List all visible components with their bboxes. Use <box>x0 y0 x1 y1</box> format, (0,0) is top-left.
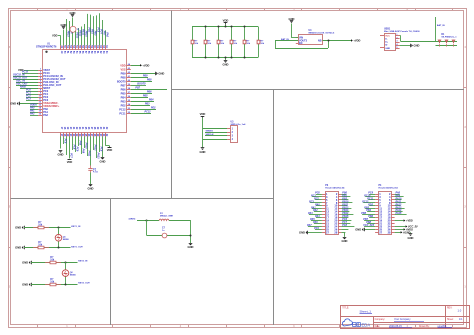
svg-text:BAT_IN: BAT_IN <box>437 24 445 27</box>
wire SWD pin1 VDD <box>203 128 228 130</box>
svg-text:PA11: PA11 <box>87 151 90 157</box>
P3 pin stubs right <box>338 195 341 233</box>
svg-text:GND: GND <box>15 226 21 230</box>
svg-text:+VDD: +VDD <box>142 63 149 67</box>
net labels on U1 top wires <box>66 28 108 39</box>
ground above U4 <box>290 20 294 22</box>
svg-text:PB7: PB7 <box>135 87 140 90</box>
net labels P3 right <box>342 192 349 227</box>
USB1 left stubs <box>380 35 384 37</box>
wire capacitor to ground <box>90 173 92 185</box>
svg-text:SWCLK: SWCLK <box>206 134 214 136</box>
net labels P4 right <box>396 192 419 235</box>
U1 pin stubs bottom side <box>61 133 106 137</box>
svg-text:PA15: PA15 <box>396 212 402 215</box>
svg-text:S8050: S8050 <box>70 274 77 276</box>
U1 pin numbers bottom inside <box>60 127 107 137</box>
svg-text:VDD: VDD <box>107 148 113 152</box>
svg-text:SS-P5BD12-L-1: SS-P5BD12-L-1 <box>441 37 457 39</box>
resistor Q2A 10k <box>45 262 50 264</box>
ground filter <box>189 243 193 245</box>
svg-text:PB6: PB6 <box>147 91 152 94</box>
ground Q2 row B <box>31 283 33 287</box>
svg-text:Your Company: Your Company <box>394 318 411 321</box>
U1 pin stubs right side <box>127 66 131 114</box>
svg-text:NB: NB <box>318 39 322 42</box>
U3 pin stubs <box>227 129 231 140</box>
junction Q1 row A <box>58 227 60 229</box>
VDD above resistor network <box>225 23 227 25</box>
svg-text:D-: D- <box>385 39 388 41</box>
wire bottom pin32 jog <box>106 145 110 147</box>
junction Q2 row A <box>65 262 67 264</box>
wire ground to U4 <box>291 23 293 37</box>
svg-text:PA7: PA7 <box>102 31 105 36</box>
svg-text:Header14X2H-2.54: Header14X2H-2.54 <box>379 187 399 190</box>
svg-text:Sheet_1: Sheet_1 <box>360 309 372 313</box>
svg-text:PC12: PC12 <box>145 111 152 114</box>
svg-text:VDD: VDD <box>223 19 229 23</box>
ground right pin 64 <box>155 72 157 76</box>
svg-text:Date:: Date: <box>375 325 381 328</box>
net labels P3 left <box>307 192 320 230</box>
svg-text:GND: GND <box>385 48 390 50</box>
resonator Y1 circle on top wire pin5 <box>70 26 76 32</box>
connector USB1 Mini USB body <box>385 34 396 51</box>
wire filter input <box>137 220 159 222</box>
VDD bar bottom pin32 <box>108 147 112 149</box>
svg-text:GND: GND <box>61 23 67 27</box>
svg-text:GND: GND <box>58 153 64 157</box>
svg-text:GND: GND <box>70 11 76 15</box>
wire BAT_IN into U4 VIN <box>275 40 298 42</box>
wire inductor right <box>169 220 190 222</box>
ground below resistor network <box>224 60 228 62</box>
svg-text:GND: GND <box>100 159 106 163</box>
svg-text:PB8: PB8 <box>147 79 152 82</box>
svg-text:PB9: PB9 <box>143 75 148 78</box>
junction dots resistor rails <box>205 26 246 59</box>
svg-text:VCC: VCC <box>385 35 390 37</box>
wires P3 right pins <box>341 195 354 233</box>
U1 pin stubs left side <box>38 71 42 116</box>
svg-text:PA0: PA0 <box>315 203 320 206</box>
svg-text:BOOT0: BOOT0 <box>137 83 146 86</box>
svg-text:+VDD: +VDD <box>406 219 413 222</box>
svg-text:PA8: PA8 <box>78 141 81 146</box>
svg-text:KEY1_OUT: KEY1_OUT <box>71 246 83 248</box>
U4 pin stubs <box>296 37 298 39</box>
svg-text:PC11: PC11 <box>119 111 126 115</box>
wire Q1 row A <box>24 227 71 229</box>
section divider horizontal y=88.5 <box>172 89 465 91</box>
svg-text:BOOT0: BOOT0 <box>117 79 126 83</box>
ground USB right <box>410 44 412 48</box>
wire SWDIO <box>205 132 227 134</box>
ground left pin 12 <box>19 102 21 106</box>
resistor R8 <box>244 27 246 41</box>
ground above resonator <box>71 14 75 16</box>
capacitor C8 circle <box>162 233 167 238</box>
U1 pin names right inside <box>117 63 131 115</box>
svg-text:PC9: PC9 <box>75 147 78 152</box>
net labels on U1 left wires <box>13 70 37 115</box>
ground P3 bottom left <box>307 231 309 235</box>
svg-text:VDD: VDD <box>120 63 126 67</box>
svg-text:GND: GND <box>342 239 348 243</box>
wire P3 bottom right down <box>344 232 346 237</box>
wires U1 right pins <box>131 66 167 114</box>
wire GND stub resistor network <box>225 58 227 61</box>
P4 pin stubs left <box>375 195 378 233</box>
ground P4 bottom right <box>409 233 413 235</box>
svg-text:EN: EN <box>299 42 303 45</box>
ground Q2 row A <box>31 261 33 265</box>
wire BAT_IN vertical <box>435 17 437 41</box>
svg-text:PB10: PB10 <box>84 31 87 38</box>
P3 pin stubs left <box>322 195 325 233</box>
junction U4 output <box>328 40 330 42</box>
wire Q1 vertical <box>58 228 60 248</box>
ground P3 bottom right <box>343 237 347 239</box>
svg-text:PA9: PA9 <box>81 149 84 154</box>
svg-text:GND: GND <box>200 150 206 154</box>
resistor R9 <box>258 27 260 41</box>
svg-text:1.0: 1.0 <box>458 308 462 312</box>
svg-text:PC4: PC4 <box>314 227 319 230</box>
IC U4 regulator ME6211 body <box>299 35 323 45</box>
resistor R5 <box>205 27 207 41</box>
svg-text:GND: GND <box>158 72 164 76</box>
junction filter right <box>190 235 192 237</box>
svg-text:PC8: PC8 <box>342 224 347 227</box>
svg-text:GND: GND <box>22 283 28 287</box>
svg-text:PC4: PC4 <box>99 29 102 34</box>
junction VDD rail <box>225 26 227 28</box>
wire U4 enable loop <box>275 41 277 49</box>
wire U4 output <box>323 40 352 42</box>
ground Q1 row B <box>24 246 26 250</box>
wire SWD pin4 GND <box>203 139 228 141</box>
resistor R6 <box>218 27 220 41</box>
title block outer <box>341 306 470 329</box>
wire filter right vertical <box>190 220 192 243</box>
svg-text:Mini_USB-B-5P Female TH_CH036: Mini_USB-B-5P Female TH_CH036 <box>384 31 420 33</box>
VDD bar bottom pin20 <box>68 159 72 161</box>
svg-text:Drawn By:: Drawn By: <box>419 325 430 328</box>
resistor R7 <box>231 27 233 41</box>
svg-text:VDD: VDD <box>67 160 73 164</box>
wires P4 right pins <box>395 195 407 233</box>
svg-text:PC5: PC5 <box>96 28 99 33</box>
svg-text:S8050: S8050 <box>63 239 70 241</box>
connector P3 Header14X2H body <box>326 192 339 235</box>
wires P4 left pins <box>362 195 375 230</box>
svg-text:PB8: PB8 <box>121 75 127 79</box>
VDD above SWD <box>202 116 204 118</box>
svg-text:REV:: REV: <box>447 308 453 310</box>
svg-text:PB5: PB5 <box>121 91 127 95</box>
svg-text:KEY2_OUT: KEY2_OUT <box>78 283 90 285</box>
svg-text:32KHZ: 32KHZ <box>128 218 136 220</box>
svg-text:PA3: PA3 <box>308 212 313 215</box>
svg-text:PB3: PB3 <box>145 103 150 106</box>
svg-text:PA2: PA2 <box>43 113 48 117</box>
inductor L1 <box>159 219 169 221</box>
resistor Q1A 10k <box>33 227 38 229</box>
EasyEDA logo <box>342 319 370 328</box>
P3 pin numbers <box>326 192 338 234</box>
svg-text:Header14X2H-2.54: Header14X2H-2.54 <box>325 187 345 190</box>
U1 pin names left inside <box>39 68 66 117</box>
svg-text:PC3: PC3 <box>26 97 31 100</box>
svg-text:STM32F405RGT6: STM32F405RGT6 <box>36 46 57 49</box>
svg-text:GND: GND <box>414 44 420 48</box>
wires U1 bottom pins <box>61 137 106 166</box>
svg-text:ME6211C33-XX_SOT23-5: ME6211C33-XX_SOT23-5 <box>309 33 336 35</box>
svg-text:PC6: PC6 <box>63 139 66 144</box>
junction Q2 row B <box>65 284 67 286</box>
svg-text:EDA: EDA <box>362 322 371 327</box>
svg-text:VDD: VDD <box>52 33 58 37</box>
svg-text:GND: GND <box>223 63 229 67</box>
svg-text:Sheet:: Sheet: <box>447 318 454 321</box>
svg-text:PA13: PA13 <box>96 153 99 159</box>
svg-text:PC12: PC12 <box>119 107 126 111</box>
ground below capacitor <box>89 184 93 186</box>
ground top area pin2 <box>62 26 66 28</box>
wire +VDD top right of U1 <box>131 65 140 67</box>
svg-text:VSS: VSS <box>120 67 125 71</box>
section divider vertical x=110.5 <box>110 199 112 326</box>
wires U1 top pins <box>61 13 106 45</box>
svg-text:KEY1_IN: KEY1_IN <box>71 226 81 228</box>
connector P4 Header14X2H body <box>379 192 392 235</box>
svg-text:PB1: PB1 <box>90 29 93 34</box>
svg-text:VCC_3V3: VCC_3V3 <box>363 224 374 227</box>
svg-text:KEY2_IN: KEY2_IN <box>78 261 88 263</box>
net labels on U1 bottom wires <box>63 139 102 159</box>
resistor Q2B 10k <box>45 284 50 286</box>
svg-text:PB13: PB13 <box>75 32 78 39</box>
net label +VDD <box>140 64 142 66</box>
svg-text:PB6: PB6 <box>121 87 127 91</box>
net label +VDD output <box>351 39 353 41</box>
title block inner lines <box>341 316 470 318</box>
svg-text:PA2: PA2 <box>313 209 318 212</box>
svg-text:PC7: PC7 <box>69 153 72 158</box>
wire SWD vertical <box>202 118 204 148</box>
svg-text:PB12: PB12 <box>78 30 81 37</box>
svg-text:PB4: PB4 <box>121 95 127 99</box>
svg-text:TITLE:: TITLE: <box>342 308 349 310</box>
svg-text:PB4: PB4 <box>366 209 371 212</box>
svg-text:PA6: PA6 <box>313 221 318 224</box>
svg-text:GND: GND <box>299 231 305 235</box>
diode D1 pack <box>436 40 458 47</box>
USB1 right pin numbers <box>396 34 398 49</box>
junction filter input <box>146 220 148 222</box>
svg-text:GND: GND <box>355 228 361 232</box>
svg-text:GND: GND <box>10 102 16 106</box>
svg-text:PD2: PD2 <box>368 203 373 206</box>
ground bottom pin31 <box>101 157 105 159</box>
svg-text:GND: GND <box>15 246 21 250</box>
svg-text:PB7: PB7 <box>121 83 127 87</box>
net labels P4 left <box>361 192 374 227</box>
wire resistor network top rail <box>192 26 258 28</box>
U1 pin1 marker <box>45 51 47 53</box>
wire resistor network bottom rail <box>192 57 258 59</box>
svg-text:BAT_IN: BAT_IN <box>281 38 289 41</box>
svg-text:PA7: PA7 <box>307 224 312 227</box>
svg-text:PB5: PB5 <box>143 95 148 98</box>
svg-text:4.7u: 4.7u <box>93 171 98 174</box>
wire above resonator <box>72 17 74 25</box>
svg-text:GND: GND <box>289 17 295 21</box>
svg-text:PC0: PC0 <box>315 192 320 195</box>
ground P4 bottom left <box>364 228 366 232</box>
svg-text:PA4: PA4 <box>315 215 320 218</box>
transistor Q2 <box>62 270 69 277</box>
ground Q1 row A <box>24 226 26 230</box>
svg-text:PB5: PB5 <box>361 212 366 215</box>
wires U1 left pins <box>13 71 38 116</box>
svg-text:SWDIO: SWDIO <box>206 130 214 132</box>
P4 pin numbers <box>379 192 391 234</box>
svg-text:PA2: PA2 <box>30 112 35 115</box>
svg-text:MK44-1_8MH: MK44-1_8MH <box>160 214 173 217</box>
svg-text:PB0: PB0 <box>93 31 96 36</box>
wire Q2 row A <box>31 262 78 264</box>
svg-text:VDD: VDD <box>18 68 24 72</box>
svg-text:PD2: PD2 <box>121 103 127 107</box>
svg-text:GND: GND <box>408 236 414 240</box>
wires P3 left pins <box>308 195 322 233</box>
wire USB VCC to BAT_IN <box>399 35 402 37</box>
connector U3 SWD body <box>231 126 238 143</box>
net labels on U1 right wires <box>135 75 156 114</box>
capacitor C7 bottom <box>88 168 92 170</box>
svg-text:VDD: VDD <box>200 112 206 116</box>
svg-text:Company:: Company: <box>375 319 386 321</box>
resistor R4 <box>192 27 194 41</box>
wire filter left branch <box>146 220 148 235</box>
wire USB gnd stub <box>400 45 411 47</box>
svg-text:PB3: PB3 <box>121 99 127 103</box>
U3 pin numbers <box>232 128 234 141</box>
section divider vertical x=272 <box>273 90 275 325</box>
svg-text:PB11: PB11 <box>81 29 84 35</box>
svg-text:PD2: PD2 <box>151 107 156 110</box>
svg-text:PB2: PB2 <box>87 28 90 33</box>
junction Q1 row B <box>58 247 60 249</box>
section divider vertical x=170.5 <box>171 11 173 199</box>
wire Q1 row B <box>24 247 71 249</box>
wire SWCLK <box>205 135 227 137</box>
wire Q2 vertical <box>65 262 67 284</box>
svg-text:PB4: PB4 <box>149 99 154 102</box>
svg-text:PB6: PB6 <box>368 215 373 218</box>
svg-text:PB15: PB15 <box>66 31 69 38</box>
junction GND rail <box>225 57 227 59</box>
svg-text:GND: GND <box>188 245 194 249</box>
resistor Q1B 10k <box>33 247 38 249</box>
wire VDD stub resistor network <box>225 24 227 26</box>
U1 pin stubs top side <box>61 45 106 49</box>
wire Q2 row B <box>31 284 78 286</box>
wire P4 bottom right down <box>410 232 412 233</box>
svg-text:GND: GND <box>22 261 28 265</box>
P4 pin stubs right <box>391 195 394 233</box>
svg-text:PC8: PC8 <box>72 145 75 150</box>
USB1 right stubs <box>396 36 400 49</box>
U1 pin numbers top inside <box>60 45 108 54</box>
svg-text:PA6: PA6 <box>105 32 108 37</box>
svg-text:PC2: PC2 <box>314 197 319 200</box>
svg-text:SWD 4 3a_1x4: SWD 4 3a_1x4 <box>231 123 247 126</box>
svg-text:1/1: 1/1 <box>459 318 463 321</box>
ground below SWD <box>201 147 205 149</box>
svg-text:PA12: PA12 <box>93 145 96 151</box>
ground bottom pin17 <box>59 150 63 152</box>
svg-text:+VDD: +VDD <box>353 39 360 43</box>
svg-text:PC3: PC3 <box>309 200 314 203</box>
section divider horizontal y=197 <box>11 198 274 200</box>
transistor Q1 <box>55 234 62 241</box>
svg-text:PB9: PB9 <box>121 71 127 75</box>
wire filter bottom branch <box>147 235 191 237</box>
svg-text:PC6: PC6 <box>99 147 102 152</box>
svg-text:PA10: PA10 <box>84 143 87 149</box>
IC U1 MCU STM32F405RGT6 body <box>43 50 127 133</box>
svg-text:GND: GND <box>88 186 94 190</box>
